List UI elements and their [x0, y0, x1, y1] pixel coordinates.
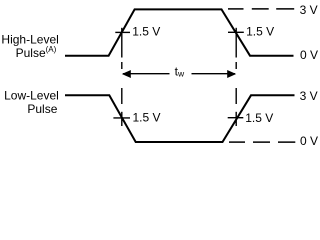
tw arrow left shaft and head [123, 73, 170, 75]
1.5V crossing tick top-right [228, 31, 244, 33]
svg-text:tw: tw [175, 65, 185, 79]
high-level pulse waveform [65, 9, 294, 55]
svg-text:0 V: 0 V [300, 134, 318, 148]
svg-text:Pulse(A): Pulse(A) [16, 45, 57, 60]
svg-text:Pulse: Pulse [27, 102, 57, 116]
svg-text:1.5 V: 1.5 V [246, 25, 274, 39]
1.5V crossing tick bottom-left [113, 117, 130, 119]
3V dashed reference line (top) [228, 8, 294, 10]
1.5V crossing tick top-left [115, 31, 130, 33]
svg-text:1.5 V: 1.5 V [245, 111, 273, 125]
svg-text:3 V: 3 V [300, 89, 318, 103]
svg-text:Low-Level: Low-Level [4, 88, 59, 102]
svg-text:1.5 V: 1.5 V [133, 111, 161, 125]
tw arrow right shaft and head [192, 73, 236, 75]
svg-text:0 V: 0 V [300, 48, 318, 62]
svg-text:3 V: 3 V [300, 3, 318, 17]
low-level pulse waveform [65, 95, 295, 142]
svg-text:1.5 V: 1.5 V [132, 25, 160, 39]
0V dashed reference line (bottom) [229, 141, 295, 143]
vertical dashed line right [235, 28, 237, 126]
1.5V crossing tick bottom-right [228, 117, 244, 119]
vertical dashed line left [121, 28, 123, 126]
